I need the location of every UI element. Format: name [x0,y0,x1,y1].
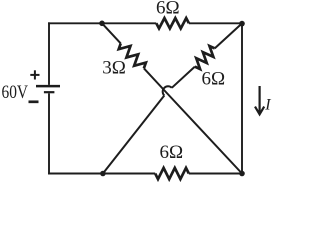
svg-text:6Ω: 6Ω [160,142,184,163]
svg-text:60V: 60V [2,82,29,103]
svg-text:3Ω: 3Ω [102,57,126,78]
svg-text:6Ω: 6Ω [156,0,180,18]
svg-text:6Ω: 6Ω [202,68,226,89]
svg-text:I: I [264,96,271,113]
